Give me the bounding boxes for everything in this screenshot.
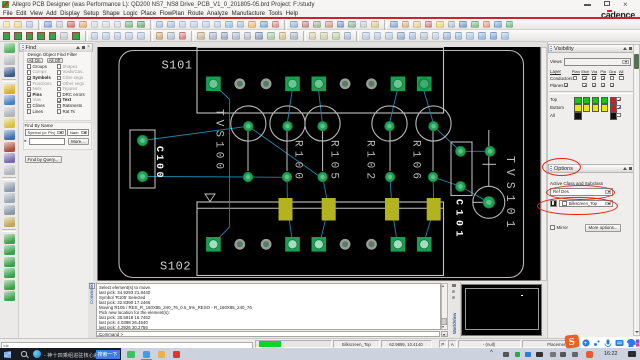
canvas svg xyxy=(93,42,547,281)
S102 pin 1 xyxy=(206,237,221,252)
C100 pad 1 xyxy=(137,135,147,145)
S101 pin 1 xyxy=(206,77,221,92)
R100 pin 1 pad xyxy=(283,121,293,131)
title bar xyxy=(0,0,640,10)
S102 pin 5 xyxy=(312,237,327,252)
R100 body circle xyxy=(270,106,305,141)
right sidebar xyxy=(547,42,640,338)
R106 lead line xyxy=(432,131,434,171)
wire C101.2 to TVS101 pad xyxy=(461,186,489,202)
svg-text:+: + xyxy=(583,341,587,347)
R105 lead line xyxy=(322,131,324,171)
toolbar row 2 xyxy=(0,30,640,42)
R100 lead line xyxy=(286,131,288,171)
S102 pin 4 xyxy=(285,237,300,252)
capacitor C100 outline xyxy=(130,130,155,188)
wire R106 pad to C101.1 xyxy=(434,126,461,151)
canvas backing xyxy=(93,42,547,282)
R100 pin 2 pad xyxy=(282,172,292,182)
TVS101 pin 1 pad xyxy=(485,146,495,156)
board outline xyxy=(119,51,524,278)
S102 pin 7 xyxy=(366,239,377,250)
capacitor C101 outline xyxy=(451,142,472,196)
status bar xyxy=(0,338,640,348)
S101 pin 8 xyxy=(391,77,406,92)
wire S101 pad9 to R106 pad xyxy=(424,90,433,122)
yellow pad under R100 xyxy=(279,198,293,221)
wire C100.2 to R100 lower pad xyxy=(143,176,288,179)
red line xyxy=(0,17,640,19)
R105 body circle xyxy=(305,106,340,141)
S102 pin 6 xyxy=(340,239,351,250)
console panel xyxy=(88,282,449,338)
wire C101.1 to TVS101 pin pad xyxy=(461,150,491,152)
yellow pad under R102 xyxy=(385,198,399,221)
C101 pad 1 xyxy=(456,146,466,156)
svg-text:R100: R100 xyxy=(292,140,304,183)
yellow pad under R106 xyxy=(427,198,441,221)
R105 pin 1 pad xyxy=(318,121,328,131)
svg-text:C100: C100 xyxy=(153,146,164,180)
wire R105 lower pad to S102 pad xyxy=(320,179,329,244)
R105 pin 2 pad xyxy=(318,172,328,182)
svg-text:TVS100: TVS100 xyxy=(213,109,225,173)
svg-text:S102: S102 xyxy=(160,260,191,274)
connector S101 outline xyxy=(197,48,444,114)
wire R102 lower pad to S102 pad xyxy=(390,177,397,244)
wire pad1 to vertical ratline xyxy=(213,84,229,244)
S101 pin 4 xyxy=(285,77,300,92)
S102 pin 9 xyxy=(417,237,432,252)
R102 pin 2 pad xyxy=(385,172,395,182)
svg-text:R102: R102 xyxy=(364,140,376,183)
find panel xyxy=(19,42,93,338)
taskbar xyxy=(0,348,640,360)
R102 body circle xyxy=(372,106,407,141)
S101 pin 3 xyxy=(261,78,272,89)
TVS101 inner line xyxy=(473,201,484,203)
red annotation ellipses xyxy=(542,158,581,176)
yellow pad under R105 xyxy=(322,198,336,221)
TVS101 lead line xyxy=(488,130,490,187)
canvas v scrollbar xyxy=(541,47,547,281)
wire S101 pad5 to R105 pad xyxy=(319,90,323,122)
R106 pin 2 pad xyxy=(428,172,438,182)
S101 pin 2 xyxy=(234,78,245,89)
screen-capture overlay toolbar xyxy=(576,337,640,348)
S102 pin 8 xyxy=(391,237,406,252)
menu bar xyxy=(0,10,640,18)
wire R106 lower pad to C101.2 xyxy=(433,177,461,186)
R106 pin 1 pad xyxy=(429,121,439,131)
R106 body circle xyxy=(416,106,451,141)
S102 pin 3 xyxy=(261,239,272,250)
R102 lead line xyxy=(389,131,391,171)
S102 pin 2 xyxy=(234,239,245,250)
svg-text:C101: C101 xyxy=(453,199,464,241)
TVS100 lead line xyxy=(247,131,249,171)
canvas background xyxy=(98,47,541,281)
wire C100.1 to VS100 pad xyxy=(143,126,249,140)
wire S101 pad4 to R100 pad xyxy=(288,90,293,122)
TVS101 crossbar xyxy=(483,163,497,165)
TVS101 body circle xyxy=(473,186,505,218)
wire VS100 pad to R105 lower pad xyxy=(248,126,323,179)
C100 pad 2 xyxy=(137,171,147,181)
worldview panel xyxy=(449,282,544,338)
S101 pin 7 xyxy=(366,78,377,89)
toolbar row 1 xyxy=(0,19,640,30)
wire S101 pad8 to R102 pad xyxy=(390,90,398,122)
S102 pin1 triangle xyxy=(205,194,215,202)
TVS100 pin 1 pad xyxy=(244,121,254,131)
svg-text:S101: S101 xyxy=(162,59,193,73)
svg-text:R105: R105 xyxy=(328,140,340,183)
TVS101 pin 2 pad xyxy=(483,197,495,209)
wire R100 lower pad to S102 pad xyxy=(287,177,293,243)
S102 inner line xyxy=(197,207,444,209)
connector S102 outline xyxy=(197,202,444,276)
TVS100 pin 2 pad xyxy=(243,172,253,182)
R102 pin 1 pad xyxy=(385,121,395,131)
cadence logo xyxy=(601,10,635,20)
S101 pin 6 xyxy=(340,78,351,89)
TVS100 body circle xyxy=(231,106,266,141)
S101 pin 9 xyxy=(417,77,432,92)
S101 pin 5 xyxy=(312,77,327,92)
C101 pad 2 xyxy=(456,181,466,191)
svg-text:R106: R106 xyxy=(410,140,422,183)
wire R106 lower pad to S102 pad xyxy=(424,177,434,244)
left vertical toolbar xyxy=(0,42,19,338)
svg-text:TVS101: TVS101 xyxy=(503,156,516,233)
